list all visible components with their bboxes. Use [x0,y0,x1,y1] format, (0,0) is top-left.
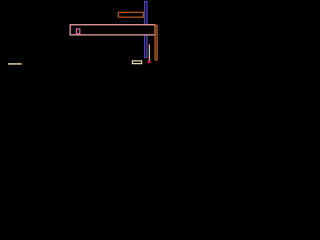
via (red filled square) [148,61,151,64]
trace F.Cu (tall orange narrow rectangle, right, over salmon outline edge) [155,25,157,59]
footprint body R2 (dark orange rectangle, top) [118,12,143,17]
silkscreen box (pale yellow rectangle) [132,61,141,64]
silkscreen segment (pale yellow bar, left) [8,63,22,64]
trace B.Cu (tall blue narrow rectangle, behind component body) [145,2,147,58]
pad 1 (pink square inside outline) [76,29,79,34]
wire (salmon vertical stub) [148,44,150,61]
component outline U1 (salmon fab rectangle, opaque black fill over blue trace) [70,25,155,35]
